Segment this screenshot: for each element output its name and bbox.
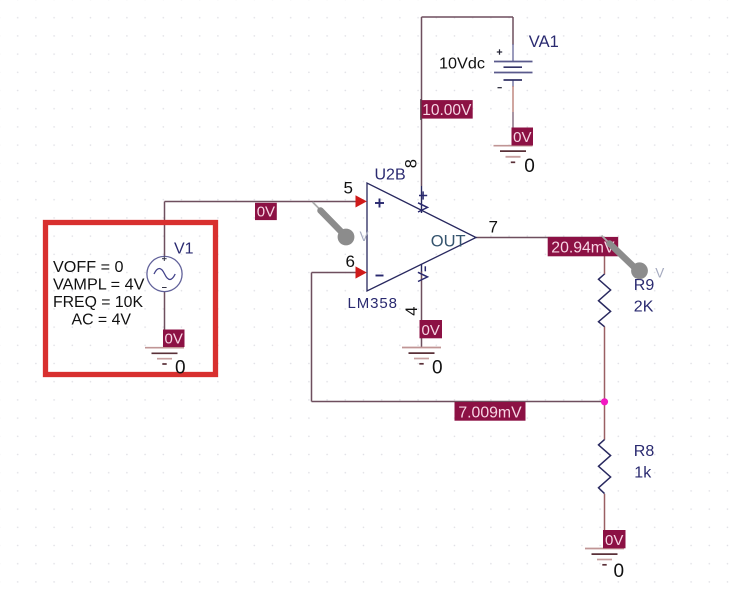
- svg-text:7.009mV: 7.009mV: [458, 404, 522, 421]
- svg-text:10.00V: 10.00V: [422, 102, 472, 119]
- svg-text:7: 7: [489, 218, 498, 237]
- svg-text:4: 4: [403, 307, 421, 316]
- svg-text:20.94mV: 20.94mV: [551, 240, 615, 257]
- svg-text:LM358: LM358: [348, 295, 398, 312]
- svg-text:VAMPL = 4V: VAMPL = 4V: [53, 276, 145, 293]
- svg-text:0V: 0V: [257, 204, 275, 221]
- svg-text:AC = 4V: AC = 4V: [72, 311, 132, 328]
- svg-text:V: V: [655, 266, 664, 281]
- svg-text:VOFF = 0: VOFF = 0: [53, 259, 124, 276]
- svg-text:V: V: [360, 229, 369, 244]
- svg-text:8: 8: [403, 159, 421, 168]
- svg-text:VA1: VA1: [529, 33, 559, 51]
- svg-text:R8: R8: [634, 443, 655, 460]
- svg-text:0V: 0V: [422, 322, 440, 339]
- svg-text:FREQ = 10K: FREQ = 10K: [53, 294, 143, 311]
- svg-text:0: 0: [614, 561, 625, 582]
- svg-text:6: 6: [346, 252, 355, 271]
- svg-text:2K: 2K: [634, 298, 654, 315]
- svg-text:0V: 0V: [605, 532, 623, 549]
- svg-text:0V: 0V: [165, 331, 183, 348]
- svg-text:10Vdc: 10Vdc: [439, 56, 485, 73]
- svg-text:0V: 0V: [513, 129, 531, 146]
- svg-text:OUT: OUT: [431, 232, 466, 250]
- svg-text:0: 0: [432, 358, 443, 379]
- svg-text:V1: V1: [174, 241, 194, 258]
- svg-text:U2B: U2B: [375, 167, 406, 184]
- svg-text:1k: 1k: [634, 465, 652, 482]
- svg-text:R9: R9: [634, 277, 655, 294]
- svg-text:5: 5: [344, 179, 353, 198]
- svg-text:0: 0: [524, 156, 535, 177]
- svg-text:0: 0: [175, 358, 186, 379]
